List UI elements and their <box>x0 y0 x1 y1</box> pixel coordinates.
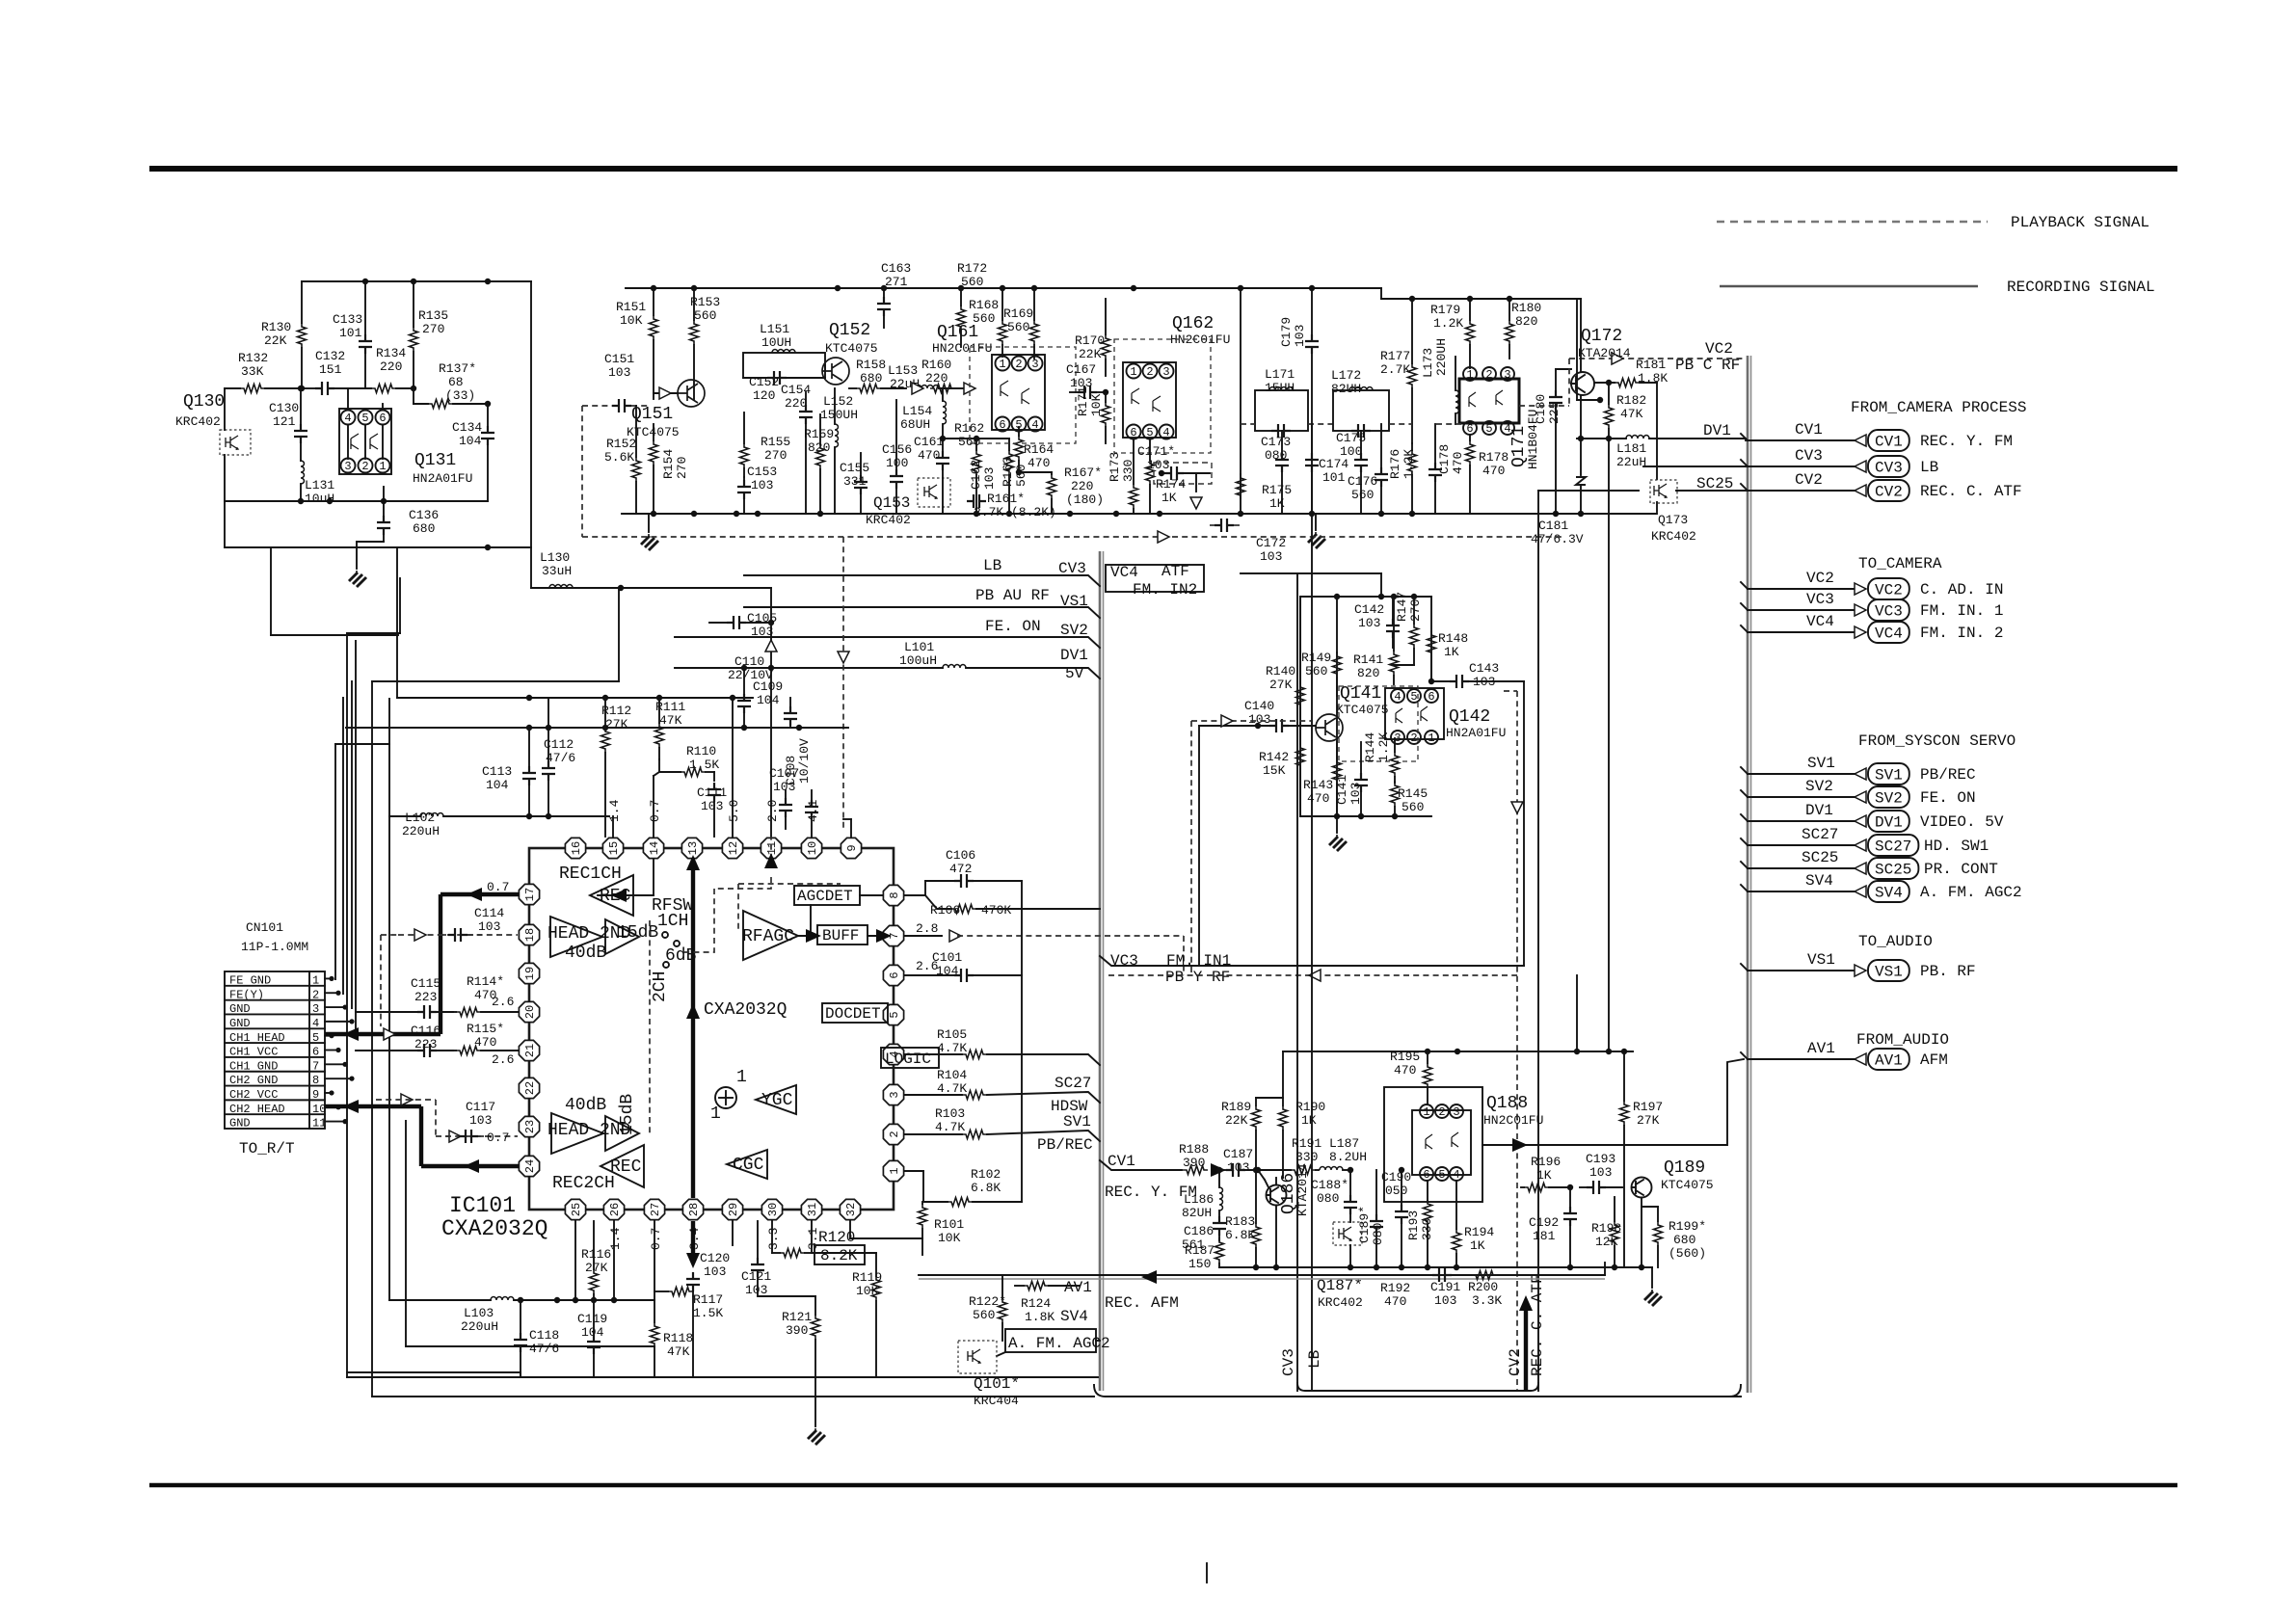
svg-text:SC27: SC27 <box>1802 826 1838 843</box>
transistor pair Q142 <box>1385 688 1444 739</box>
svg-text:KRC402: KRC402 <box>175 414 221 429</box>
svg-text:3: 3 <box>1453 1105 1459 1119</box>
svg-text:Q188: Q188 <box>1486 1094 1528 1113</box>
svg-text:1: 1 <box>1466 368 1473 382</box>
wire pin32 stub <box>849 1221 851 1238</box>
svg-text:103: 103 <box>478 919 500 934</box>
wire CV2 vertical <box>1537 491 1539 1391</box>
svg-text:R141: R141 <box>1353 652 1383 667</box>
svg-text:680: 680 <box>413 521 435 536</box>
svg-text:47K: 47K <box>667 1344 690 1359</box>
pin 22 IC101 <box>519 1078 539 1098</box>
svg-text:1.2K: 1.2K <box>1376 732 1391 762</box>
svg-text:HN2C01FU: HN2C01FU <box>932 341 992 356</box>
svg-text:R151: R151 <box>616 300 646 314</box>
svg-text:VS1: VS1 <box>1875 964 1903 981</box>
svg-text:C162: C162 <box>969 460 983 490</box>
svg-text:5: 5 <box>1485 422 1492 436</box>
svg-text:R171: R171 <box>1076 386 1090 416</box>
svg-text:GND: GND <box>229 1117 251 1131</box>
svg-text:1: 1 <box>999 358 1005 371</box>
svg-text:27: 27 <box>649 1203 662 1216</box>
wire pin15 stub <box>612 816 614 837</box>
amplifier HEAD 2ND ch2 <box>551 1113 603 1154</box>
resistor R120 symbol <box>780 1249 805 1258</box>
connector CN101 pin 7 CH1 GND <box>225 1056 325 1058</box>
svg-text:2.6: 2.6 <box>492 995 514 1009</box>
svg-text:R160: R160 <box>921 358 951 372</box>
svg-text:220UH: 220UH <box>1434 338 1449 376</box>
svg-text:0.7: 0.7 <box>649 1228 663 1250</box>
svg-text:103: 103 <box>704 1264 726 1279</box>
wire VC3 solid row <box>1100 956 1524 966</box>
svg-text:(180): (180) <box>1066 492 1104 507</box>
svg-text:BUFF: BUFF <box>822 927 859 945</box>
wire DV1 5V step <box>675 667 943 669</box>
svg-text:Q173: Q173 <box>1658 513 1688 527</box>
svg-text:L131: L131 <box>305 478 334 492</box>
svg-text:L173: L173 <box>1421 348 1435 378</box>
svg-text:225: 225 <box>1547 402 1562 424</box>
svg-text:Q162: Q162 <box>1172 314 1214 333</box>
svg-text:270: 270 <box>675 457 689 479</box>
svg-text:AV1: AV1 <box>1875 1052 1903 1070</box>
wire DV1 to bus <box>1745 439 1747 440</box>
wire bottom long y=1429 <box>347 1376 1098 1378</box>
svg-text:(33): (33) <box>445 388 475 403</box>
wire Q141 left vert <box>1299 597 1301 816</box>
wire dashed Q152 link <box>581 406 583 537</box>
svg-text:RFAGC: RFAGC <box>742 927 794 946</box>
svg-text:470: 470 <box>1451 452 1465 474</box>
svg-text:C163: C163 <box>881 261 911 276</box>
pin 4 IC101 <box>883 1044 903 1064</box>
svg-text:560: 560 <box>973 311 995 326</box>
svg-text:1.4: 1.4 <box>607 799 622 822</box>
svg-text:33uH: 33uH <box>542 564 572 578</box>
svg-text:FROM_SYSCON SERVO: FROM_SYSCON SERVO <box>1858 732 2016 750</box>
svg-text:3.3: 3.3 <box>766 1228 781 1250</box>
pin 20 IC101 <box>519 1001 539 1022</box>
svg-text:R130: R130 <box>261 320 291 334</box>
svg-text:104: 104 <box>757 693 780 707</box>
wire dashed x=875 column <box>842 537 844 829</box>
svg-text:103: 103 <box>751 478 773 492</box>
svg-text:C191: C191 <box>1430 1280 1460 1294</box>
thick rec path pin13 to pin28 <box>691 860 695 1198</box>
connector CN101 pin 9 CH2 VCC <box>225 1085 325 1087</box>
pin 15 IC101 <box>602 838 623 858</box>
wire left y=659 <box>271 634 398 636</box>
wire left routing h y=707 <box>372 680 619 682</box>
dashed pin23 head path <box>436 1135 518 1137</box>
svg-text:FROM_CAMERA PROCESS: FROM_CAMERA PROCESS <box>1851 399 2026 416</box>
svg-text:SV2: SV2 <box>1805 778 1833 795</box>
wire left routing v3 <box>371 681 373 1397</box>
svg-text:VC3: VC3 <box>1875 603 1903 621</box>
pin 28 IC101 <box>682 1199 703 1219</box>
svg-text:Q151: Q151 <box>631 405 673 424</box>
svg-text:R187: R187 <box>1185 1243 1215 1258</box>
wire CV1 input to Q186 <box>1244 1169 1291 1171</box>
svg-text:10K: 10K <box>938 1231 961 1245</box>
open arrow up C110 <box>765 640 777 652</box>
svg-text:26: 26 <box>608 1203 622 1216</box>
pin 25 IC101 <box>565 1199 585 1219</box>
wire left routing v4 <box>388 699 390 1300</box>
svg-text:1: 1 <box>1428 732 1434 745</box>
svg-text:REC2CH: REC2CH <box>552 1174 615 1193</box>
wire VC3 vertical <box>1311 424 1313 1391</box>
svg-text:24: 24 <box>523 1159 537 1173</box>
pin 10 IC101 <box>801 838 821 858</box>
node CV2 callout <box>1741 471 2022 501</box>
svg-text:C193: C193 <box>1586 1152 1615 1166</box>
svg-text:KTC4075: KTC4075 <box>1661 1178 1714 1192</box>
svg-text:R179: R179 <box>1430 303 1460 317</box>
pin 17 IC101 <box>519 884 539 904</box>
svg-text:REC. C. ATF: REC. C. ATF <box>1920 483 2022 500</box>
pin 1 IC101 <box>883 1160 903 1181</box>
wire channel bottom y=1449 corners <box>1094 1385 1741 1397</box>
svg-text:HD. SW1: HD. SW1 <box>1924 838 1989 855</box>
svg-text:C115: C115 <box>411 976 441 991</box>
svg-text:2: 2 <box>1015 358 1022 371</box>
svg-text:15K: 15K <box>1263 763 1286 778</box>
wire left routing v5 <box>405 1121 407 1346</box>
svg-text:HN2A01FU: HN2A01FU <box>413 471 472 486</box>
svg-text:2.0: 2.0 <box>765 800 780 822</box>
svg-text:Q172: Q172 <box>1581 327 1622 346</box>
svg-text:KRC402: KRC402 <box>1651 529 1696 544</box>
svg-text:6.8K: 6.8K <box>971 1181 1001 1195</box>
block AGCDET <box>794 886 860 905</box>
svg-text:SV1: SV1 <box>1875 767 1903 785</box>
svg-text:104: 104 <box>486 778 509 792</box>
ground Q141 cluster <box>1336 816 1338 833</box>
svg-text:R124: R124 <box>1021 1296 1051 1311</box>
svg-text:R194: R194 <box>1464 1225 1494 1239</box>
dashed box Q142 <box>1339 686 1418 761</box>
svg-text:R176: R176 <box>1388 449 1402 479</box>
svg-text:103: 103 <box>745 1283 767 1297</box>
svg-text:C142: C142 <box>1354 602 1384 617</box>
pin 30 IC101 <box>761 1199 782 1219</box>
svg-text:080: 080 <box>1317 1191 1339 1206</box>
wire right cluster right edge <box>1576 299 1578 400</box>
svg-text:470K: 470K <box>981 903 1011 918</box>
svg-text:271: 271 <box>885 275 908 289</box>
svg-text:560: 560 <box>1007 320 1029 334</box>
ground right cluster <box>1315 514 1317 530</box>
svg-text:R116: R116 <box>581 1247 611 1262</box>
svg-text:2.7K (8.2K): 2.7K (8.2K) <box>974 505 1056 519</box>
wire Q188 out arrow <box>1482 1059 1744 1145</box>
svg-text:R110: R110 <box>686 744 716 758</box>
svg-text:R147: R147 <box>1395 592 1409 622</box>
svg-text:L153: L153 <box>888 363 918 378</box>
svg-text:C113: C113 <box>482 764 512 779</box>
svg-text:KRC402: KRC402 <box>866 513 911 527</box>
svg-text:10UH: 10UH <box>761 335 791 350</box>
svg-text:R121: R121 <box>782 1310 812 1324</box>
connector stub wires <box>325 977 332 979</box>
svg-text:470: 470 <box>1028 456 1050 470</box>
svg-text:R168: R168 <box>969 298 999 312</box>
transistor Q187* <box>1333 1222 1362 1245</box>
node VC2 callout <box>1741 570 2003 599</box>
pin 6 IC101 <box>883 965 903 985</box>
svg-text:R102: R102 <box>971 1167 1001 1182</box>
connector CN101 pin 8 CH2 GND <box>225 1071 325 1073</box>
svg-text:R159: R159 <box>804 427 834 441</box>
svg-text:8.2UH: 8.2UH <box>1329 1150 1367 1164</box>
svg-text:47/6: 47/6 <box>546 751 575 765</box>
dashed RFAGC loop <box>738 883 841 885</box>
svg-text:560: 560 <box>694 308 716 323</box>
svg-text:R189: R189 <box>1221 1100 1251 1114</box>
connector CN101 box <box>225 971 325 1129</box>
wire left routing h top1 <box>347 632 400 634</box>
svg-text:ATF: ATF <box>1161 563 1189 580</box>
svg-text:4: 4 <box>1031 418 1038 432</box>
wire Q141 bottom <box>1300 815 1431 817</box>
open arrow down at Q162 <box>1190 497 1202 509</box>
svg-text:68UH: 68UH <box>900 417 930 432</box>
svg-text:560: 560 <box>961 275 983 289</box>
wire C105 column <box>770 588 772 837</box>
svg-text:5: 5 <box>1410 690 1417 704</box>
svg-text:C133: C133 <box>333 312 362 327</box>
svg-text:L186: L186 <box>1184 1192 1214 1207</box>
node CV1 callout <box>1741 421 2013 451</box>
svg-text:LB: LB <box>1920 459 1938 476</box>
svg-text:C108: C108 <box>784 756 798 785</box>
svg-text:103: 103 <box>1434 1293 1456 1308</box>
svg-text:L101: L101 <box>904 640 934 654</box>
svg-text:103: 103 <box>1589 1165 1612 1180</box>
wire RFAGC to BUFF <box>798 935 817 937</box>
svg-text:2: 2 <box>1146 365 1153 379</box>
svg-text:A. FM. AGC2: A. FM. AGC2 <box>1008 1335 1110 1352</box>
wire top rail of Q130 block <box>302 280 531 282</box>
svg-text:DV1: DV1 <box>1875 814 1903 832</box>
wire pin12 stub <box>732 698 734 837</box>
dashed path pin11 to switch <box>714 877 771 889</box>
connector CN101 pin 6 CH1 VCC <box>225 1042 325 1044</box>
svg-text:C109: C109 <box>753 679 783 694</box>
pin 7 IC101 <box>883 925 903 945</box>
svg-text:6: 6 <box>379 412 386 425</box>
svg-text:R173: R173 <box>1108 452 1122 482</box>
svg-text:1.8K: 1.8K <box>1025 1310 1055 1324</box>
node CV3 callout <box>1741 447 1938 477</box>
wire pin9 stub <box>850 819 852 837</box>
svg-text:Q131: Q131 <box>414 451 456 470</box>
svg-text:9: 9 <box>845 844 859 851</box>
wire bottom rail of Q130 block <box>225 500 488 502</box>
svg-text:R175: R175 <box>1262 483 1292 497</box>
svg-text:C173: C173 <box>1261 435 1291 449</box>
amplifier REC2CH <box>601 1145 644 1187</box>
wire y=724 long <box>397 697 753 699</box>
svg-text:DV1: DV1 <box>1805 802 1833 819</box>
svg-text:390: 390 <box>786 1323 808 1338</box>
svg-text:4.7K: 4.7K <box>937 1041 967 1055</box>
svg-text:28: 28 <box>687 1203 701 1216</box>
svg-text:330: 330 <box>1295 1150 1318 1164</box>
svg-text:SC25: SC25 <box>1802 849 1838 866</box>
svg-text:LOGIC: LOGIC <box>885 1051 931 1068</box>
svg-text:PLAYBACK SIGNAL: PLAYBACK SIGNAL <box>2011 214 2149 231</box>
svg-text:R134: R134 <box>376 346 406 360</box>
wire CV1 row <box>1100 1160 1182 1170</box>
svg-text:R120: R120 <box>818 1229 855 1246</box>
svg-text:5.6K: 5.6K <box>604 450 634 465</box>
svg-text:C119: C119 <box>577 1312 607 1326</box>
svg-text:32: 32 <box>844 1203 858 1216</box>
svg-text:R193: R193 <box>1406 1211 1421 1240</box>
right vertical bus <box>1747 356 1749 1393</box>
svg-text:C187: C187 <box>1223 1147 1253 1161</box>
center vertical bus <box>1099 551 1102 1391</box>
svg-text:103: 103 <box>1358 616 1380 630</box>
wire y=755 <box>346 727 848 729</box>
svg-text:R145: R145 <box>1398 786 1428 801</box>
wire CH1 HEAD row <box>325 1032 441 1036</box>
svg-text:PB. RF: PB. RF <box>1920 963 1976 980</box>
svg-text:L154: L154 <box>902 404 932 418</box>
svg-text:CN101: CN101 <box>246 920 283 935</box>
svg-text:R200: R200 <box>1468 1280 1498 1294</box>
svg-text:DV1: DV1 <box>1060 647 1088 664</box>
wire left routing v1 <box>346 633 348 1377</box>
svg-text:REC1CH: REC1CH <box>559 865 622 884</box>
svg-text:104: 104 <box>581 1325 604 1340</box>
svg-text:R132: R132 <box>238 351 268 365</box>
pin 32 IC101 <box>840 1199 860 1219</box>
svg-text:R177: R177 <box>1380 349 1410 363</box>
svg-text:CV2: CV2 <box>1507 1348 1524 1376</box>
ground of Q130 block <box>349 571 366 587</box>
svg-text:R181: R181 <box>1636 358 1666 372</box>
wire FE.ON step <box>675 637 1100 648</box>
ground top-middle <box>648 514 650 532</box>
wire left y=1424 <box>347 1371 521 1373</box>
svg-text:R172: R172 <box>957 261 987 276</box>
node AV1 callout <box>1741 1040 1948 1070</box>
svg-text:R190: R190 <box>1295 1100 1325 1114</box>
svg-text:C120: C120 <box>700 1251 730 1265</box>
svg-text:2CH: 2CH <box>651 971 670 1002</box>
wire pin30/31 stubs <box>771 1221 773 1253</box>
wire Q186 cluster top rail <box>1283 1051 1633 1052</box>
svg-text:DV1: DV1 <box>1703 422 1731 439</box>
svg-text:C172: C172 <box>1256 536 1286 550</box>
svg-text:PB/REC: PB/REC <box>1037 1136 1093 1154</box>
svg-text:21: 21 <box>523 1044 537 1057</box>
svg-text:L181: L181 <box>1616 441 1646 456</box>
svg-text:CV2: CV2 <box>1795 471 1823 489</box>
svg-text:6: 6 <box>1130 426 1136 439</box>
thick rec path pin17 <box>441 892 519 896</box>
svg-text:VC2: VC2 <box>1705 340 1733 358</box>
svg-text:VC4: VC4 <box>1806 613 1834 630</box>
svg-text:470: 470 <box>474 1035 496 1050</box>
svg-text:470: 470 <box>1482 464 1505 478</box>
svg-text:6: 6 <box>1423 1168 1429 1182</box>
wire dashed PB Y RF <box>1108 974 1517 976</box>
svg-text:R101: R101 <box>934 1217 964 1232</box>
svg-text:L187: L187 <box>1329 1136 1359 1151</box>
svg-text:22K: 22K <box>1079 347 1102 361</box>
svg-text:4.7K: 4.7K <box>937 1081 967 1096</box>
svg-text:1K: 1K <box>1301 1113 1317 1128</box>
svg-text:27K: 27K <box>1269 678 1293 692</box>
transistor pair Q161 <box>992 355 1045 430</box>
svg-text:CGC: CGC <box>733 1156 764 1175</box>
svg-text:5: 5 <box>1438 1168 1445 1182</box>
pin 12 IC101 <box>722 838 742 858</box>
pin 31 IC101 <box>801 1199 821 1219</box>
svg-text:SV1: SV1 <box>1807 755 1835 772</box>
svg-text:VIDEO. 5V: VIDEO. 5V <box>1920 813 2004 831</box>
dashed box Q161 <box>970 347 1076 443</box>
svg-text:PB/REC: PB/REC <box>1920 766 1976 784</box>
svg-text:VC4: VC4 <box>1110 564 1138 581</box>
svg-text:472: 472 <box>949 862 972 876</box>
svg-text:17: 17 <box>523 888 537 901</box>
svg-text:6: 6 <box>888 971 901 978</box>
svg-text:680: 680 <box>1673 1233 1695 1247</box>
transistor Q189 <box>1632 1178 1652 1198</box>
svg-text:A. FM. AGC2: A. FM. AGC2 <box>1920 884 2022 901</box>
svg-text:151: 151 <box>319 362 342 377</box>
svg-text:C153: C153 <box>747 465 777 479</box>
wire left block drop y=572 <box>225 546 531 548</box>
svg-text:KTA2014: KTA2014 <box>1578 346 1631 360</box>
svg-text:R164: R164 <box>1024 442 1054 457</box>
wire CV3 to bus <box>1643 466 1746 467</box>
pin 9 IC101 <box>841 838 861 858</box>
svg-text:12: 12 <box>727 841 740 855</box>
pin 13 IC101 <box>681 838 702 858</box>
svg-text:1K: 1K <box>1470 1238 1485 1253</box>
svg-text:C161: C161 <box>914 435 944 449</box>
wire right vert x=1060 <box>1021 881 1023 1202</box>
svg-text:C117: C117 <box>466 1100 495 1114</box>
IC101 pin ring <box>529 848 894 1210</box>
svg-text:6: 6 <box>1466 422 1473 436</box>
svg-text:560: 560 <box>1014 465 1028 487</box>
svg-text:3: 3 <box>1031 358 1038 371</box>
svg-text:C101: C101 <box>932 950 962 965</box>
svg-text:4: 4 <box>1453 1168 1459 1182</box>
svg-text:820: 820 <box>1357 666 1379 680</box>
svg-text:R196: R196 <box>1531 1155 1561 1169</box>
thick arrow into pin11 <box>764 853 778 868</box>
svg-text:470: 470 <box>918 448 940 463</box>
svg-text:103: 103 <box>701 799 723 813</box>
svg-text:4: 4 <box>344 412 351 425</box>
wire top rail right y=310 <box>1381 298 1579 300</box>
svg-text:101: 101 <box>1322 470 1346 485</box>
svg-text:11P-1.0MM: 11P-1.0MM <box>241 940 308 954</box>
svg-text:3: 3 <box>888 1091 901 1098</box>
svg-text:TO_AUDIO: TO_AUDIO <box>1858 933 1933 950</box>
svg-text:R169: R169 <box>1003 306 1033 321</box>
svg-text:Q101*: Q101* <box>974 1375 1020 1393</box>
